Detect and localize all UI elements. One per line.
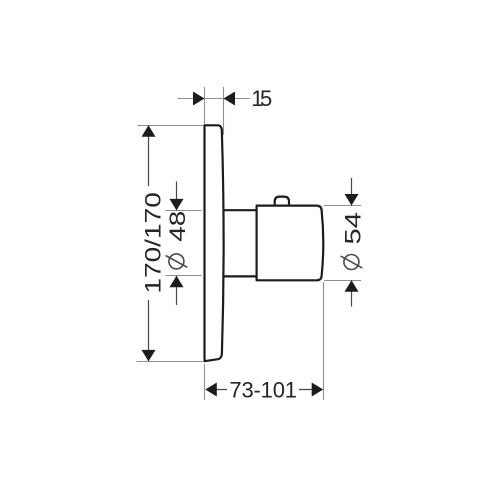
svg-text:170/170: 170/170 xyxy=(140,192,165,294)
svg-text:54: 54 xyxy=(341,212,366,245)
svg-text:48: 48 xyxy=(165,211,190,242)
svg-text:15: 15 xyxy=(251,86,272,111)
svg-text:73-101: 73-101 xyxy=(229,378,297,403)
